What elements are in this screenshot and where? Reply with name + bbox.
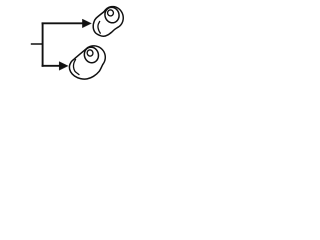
wire: left tick (31, 43, 43, 45)
wire: bottom leader line (42, 65, 60, 67)
part bottom grommet: face outer edge arc (88, 46, 106, 65)
part top grommet: body step arc (98, 21, 100, 33)
arrowhead: top arrow (82, 19, 91, 28)
part bottom grommet: body outline (back rim + bottom sweep) (69, 48, 102, 79)
part top grommet: center hole (108, 10, 114, 16)
wire: top leader line (42, 22, 83, 24)
part bottom grommet: silhouette fill (69, 46, 105, 79)
part top grommet: body outline (back rim + bottom sweep) (93, 11, 118, 36)
arrowhead: bottom arrow (59, 62, 68, 71)
part bottom grommet: body step arc (73, 59, 79, 74)
part bottom grommet: center hole (87, 50, 93, 56)
wire: vertical bracket line (42, 22, 44, 66)
part top grommet: face outer edge arc (104, 7, 123, 28)
part bottom grommet: face ring (84, 47, 98, 63)
part top grommet: silhouette fill (93, 7, 123, 37)
part top grommet: face ring (105, 7, 119, 22)
